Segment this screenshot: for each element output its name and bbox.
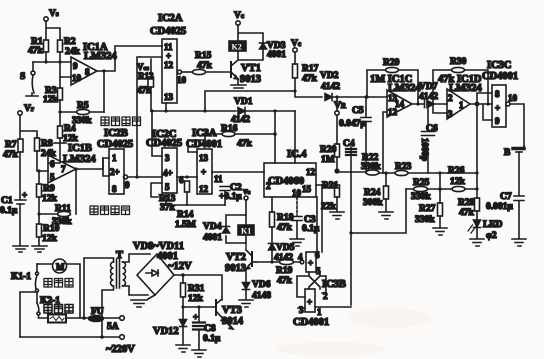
wire IC1D out up to IC3C pin8	[477, 93, 492, 104]
resistor R30 feedback	[433, 57, 488, 113]
svg-text:0.1μ: 0.1μ	[0, 206, 18, 216]
svg-text:12: 12	[388, 107, 398, 117]
svg-text:R21: R21	[322, 181, 339, 191]
wire R16 bus y134	[205, 133, 275, 135]
ground under VD6	[239, 300, 253, 307]
node VR terminal stub	[334, 97, 347, 115]
svg-text:15: 15	[302, 184, 312, 194]
wire x440 from bus y173 down through R27	[439, 173, 441, 203]
resistor R17	[293, 52, 319, 91]
node junction x137 on y177	[135, 175, 138, 178]
svg-text:47k: 47k	[3, 150, 19, 160]
svg-text:+: +	[307, 297, 312, 307]
switch K1-1	[35, 264, 38, 292]
svg-text:CD4060: CD4060	[268, 176, 304, 187]
ground under R27	[433, 228, 447, 235]
svg-text:4+: 4+	[163, 168, 173, 178]
wire IC2C pin5 left bracket	[151, 183, 162, 197]
ground under LED	[470, 239, 484, 246]
svg-text:IC2B: IC2B	[104, 128, 128, 139]
svg-text:R7: R7	[5, 140, 17, 150]
diode VD2	[320, 71, 340, 101]
svg-text:R24: R24	[364, 188, 381, 198]
capacitor C7	[486, 192, 524, 238]
bridge rectifier VD8-VD11	[133, 241, 192, 295]
node junction dots	[44, 60, 61, 63]
svg-text:VD2: VD2	[320, 71, 339, 81]
capacitor C8 electrolytic	[193, 307, 221, 349]
svg-text:S: S	[20, 72, 25, 82]
svg-text:12k: 12k	[450, 177, 466, 187]
diode VD7	[419, 82, 438, 108]
resistor R2	[58, 37, 81, 57]
wire feedback loop x351 y233 x406	[351, 189, 406, 233]
wire R9 column	[38, 171, 40, 245]
resistor R15	[193, 51, 213, 75]
motor M	[53, 259, 67, 273]
svg-text:~12V: ~12V	[168, 261, 192, 272]
svg-text:6: 6	[50, 159, 55, 169]
resistor R22	[361, 153, 381, 175]
svg-text:VT3: VT3	[222, 305, 242, 316]
ground under C7	[512, 239, 526, 246]
svg-text:R20: R20	[320, 145, 337, 155]
svg-text:R9: R9	[43, 184, 55, 194]
ground under VD12	[176, 345, 190, 352]
svg-text:IC2A: IC2A	[158, 13, 183, 24]
resistor R31	[181, 275, 205, 307]
resistor R29 feedback	[367, 58, 418, 104]
wire IC2A pin13 down to y111 bus	[165, 103, 167, 112]
svg-text:4148: 4148	[252, 291, 271, 301]
resistor R10	[37, 224, 60, 244]
svg-text:+0.1μ: +0.1μ	[219, 192, 242, 202]
svg-text:12k: 12k	[42, 194, 58, 204]
wire x275 down to IC4 top	[274, 111, 276, 163]
terminal circle AC bottom	[120, 335, 125, 340]
svg-text:R10: R10	[43, 224, 60, 234]
svg-text:9013: 9013	[225, 263, 246, 274]
wire IC3C output pin10	[506, 93, 524, 146]
wire IC3A pin11 output to IC4 left edge	[212, 171, 264, 173]
svg-text:LM324: LM324	[388, 83, 421, 94]
svg-text:IC3C: IC3C	[487, 60, 512, 71]
svg-text:K1-1: K1-1	[11, 272, 31, 282]
resistor R7	[3, 139, 23, 160]
wire gate1 output up	[316, 197, 318, 252]
resistor R1	[28, 37, 49, 56]
wire VT2 emitter to VD6	[245, 269, 247, 282]
svg-text:IC1B: IC1B	[68, 143, 92, 154]
resistor R11	[52, 204, 72, 227]
wire bus y173	[337, 172, 477, 173]
node junction R14 tap	[185, 175, 188, 178]
wire IC2A output pin10 to R15	[177, 70, 192, 85]
svg-text:φ2: φ2	[486, 231, 497, 241]
wire R7 to C1	[19, 152, 21, 199]
svg-text:CD4025: CD4025	[150, 26, 186, 37]
transistor Q VT2	[225, 243, 252, 274]
svg-text:47k: 47k	[137, 85, 151, 95]
wire K2 VD3 bottoms to VT1 collector	[238, 49, 263, 60]
svg-text:VR: VR	[334, 101, 347, 111]
wire IC2C pin5 stub	[166, 193, 187, 205]
svg-text:IC.4: IC.4	[287, 149, 307, 160]
wire x295 from y111 bus to IC4 top	[294, 111, 296, 163]
IC U IC2C CD4025	[146, 129, 182, 193]
svg-text:C4: C4	[343, 139, 355, 149]
heater element	[39, 315, 67, 323]
svg-text:8: 8	[85, 67, 90, 77]
svg-text:330k: 330k	[411, 192, 431, 202]
wire R16 left end to IC3A pin13 column	[188, 134, 205, 140]
svg-text:+: +	[495, 103, 500, 113]
capacitor C1	[0, 190, 27, 245]
svg-text:3: 3	[448, 109, 453, 119]
svg-text:LM324: LM324	[63, 154, 96, 165]
svg-text:R15: R15	[195, 51, 212, 61]
svg-text:K2: K2	[232, 43, 242, 52]
svg-text:+: +	[201, 167, 206, 177]
resistor R13 labels	[159, 194, 176, 213]
wire bridge output to VT3 collector	[174, 275, 222, 300]
wire R12 column	[150, 59, 152, 111]
wire motor loop	[37, 264, 80, 318]
wire R11 to R9 R10 junction	[39, 213, 58, 215]
IC U IC2B CD4025	[97, 128, 133, 194]
svg-text:8: 8	[495, 89, 500, 99]
transistor Q VT1	[231, 60, 261, 85]
resistor R9	[37, 184, 58, 204]
svg-text:C1: C1	[1, 196, 13, 206]
op-amp U IC1B	[48, 143, 96, 183]
op-amp U IC1A	[71, 42, 117, 85]
svg-text:2: 2	[323, 291, 328, 301]
svg-text:300k: 300k	[363, 198, 383, 208]
svg-text:M: M	[56, 262, 65, 272]
terminal circle AC top	[120, 316, 125, 321]
svg-text:47k: 47k	[277, 276, 293, 286]
svg-text:1: 1	[459, 100, 464, 110]
svg-text:9013: 9013	[240, 74, 261, 85]
svg-text:4001: 4001	[203, 233, 222, 243]
resistor R28	[458, 198, 480, 219]
svg-text:+: +	[193, 312, 198, 322]
node Vc terminal above K2	[234, 11, 244, 25]
diode VD1	[231, 97, 253, 125]
svg-text:Vr: Vr	[24, 104, 34, 114]
svg-text:9014: 9014	[222, 316, 244, 327]
svg-text:24k: 24k	[65, 47, 81, 57]
IC U IC3C CD4001	[482, 60, 518, 127]
svg-text:VT1: VT1	[241, 63, 261, 74]
svg-text:2+: 2+	[110, 167, 120, 177]
svg-text:R14: R14	[177, 210, 194, 220]
diode VD5	[269, 243, 295, 263]
svg-text:10: 10	[508, 93, 518, 103]
svg-text:22k: 22k	[321, 202, 337, 212]
capacitor C5	[339, 97, 371, 173]
svg-text:47k: 47k	[459, 208, 475, 218]
wire R8 to IC1B pin5	[37, 151, 48, 171]
svg-text:R26: R26	[448, 166, 465, 176]
diode VD6	[243, 280, 272, 301]
svg-text:R28: R28	[458, 198, 475, 208]
capacitor C3	[292, 197, 320, 238]
LED	[468, 220, 503, 241]
svg-text:1: 1	[317, 307, 322, 317]
wire R5 horizontal	[60, 111, 104, 113]
wire junction bar below R4	[54, 142, 66, 144]
ground VT1 emitter	[231, 79, 246, 88]
resistor R20	[320, 115, 340, 170]
svg-text:11: 11	[214, 174, 223, 184]
svg-text:9: 9	[125, 180, 130, 190]
svg-text:R31: R31	[188, 284, 205, 294]
relay coil K2	[229, 41, 246, 52]
wire VD2 to IC1C pin13	[332, 96, 387, 98]
wire IC1A output to IC2A pin11	[97, 46, 162, 71]
svg-text:12: 12	[164, 60, 174, 70]
svg-text:R29: R29	[383, 58, 400, 68]
svg-text:R8: R8	[41, 139, 53, 149]
IC U IC4 CD4060	[264, 149, 316, 198]
NOR gate IC3B-b	[299, 289, 328, 317]
svg-text:K1: K1	[241, 227, 251, 236]
svg-text:B: B	[504, 148, 511, 158]
wire IC1D output to IC3C	[470, 103, 492, 105]
wire into IC3A pin13 from above	[188, 140, 197, 152]
svg-text:1: 1	[112, 153, 117, 163]
svg-text:1M: 1M	[321, 155, 335, 165]
svg-text:+: +	[22, 190, 27, 200]
svg-text:9: 9	[73, 61, 78, 71]
wire IC2B output pin9	[124, 175, 163, 190]
label overflow switch (CJK imitation)	[101, 117, 141, 126]
svg-text:12: 12	[306, 167, 316, 177]
wire bus y111 with VD1	[151, 110, 295, 112]
node Vs terminal top-left	[44, 9, 59, 21]
relay coil K1	[238, 225, 254, 236]
diode VD12	[153, 307, 187, 344]
svg-text:4142: 4142	[321, 82, 340, 92]
faint scan smudges	[275, 308, 430, 356]
svg-text:R30: R30	[450, 57, 467, 67]
svg-text:0.001μ: 0.001μ	[486, 202, 513, 212]
label water level switch (CJK imitation)	[90, 206, 130, 215]
label motor (CJK imitation)	[44, 279, 73, 288]
transistor Q VT3	[216, 299, 244, 329]
wire Vr column down	[20, 115, 37, 139]
wire IC1C pin12 down to bus	[383, 112, 387, 173]
resistor R3	[43, 86, 63, 105]
node Vc2 terminal	[243, 186, 251, 215]
resistor R14	[175, 181, 196, 230]
wire IC2A pin12 input from Vcc R12 column	[140, 56, 162, 58]
svg-text:R17: R17	[302, 64, 319, 74]
IC U IC3A CD4001	[186, 128, 223, 194]
resistor R25	[411, 178, 431, 202]
op-amp U IC1C	[370, 74, 421, 117]
svg-text:C8: C8	[204, 324, 216, 334]
resistor R26	[448, 166, 466, 192]
resistor R21	[321, 181, 340, 212]
svg-text:5: 5	[165, 182, 170, 192]
ground bridge bottom	[131, 295, 155, 307]
wire IC4 pin15 to R21	[316, 184, 337, 186]
svg-text:VD6: VD6	[252, 280, 271, 290]
svg-text:12: 12	[199, 184, 209, 194]
node V+ terminal R17	[291, 39, 301, 52]
svg-text:LED: LED	[483, 220, 503, 230]
svg-text:VD4: VD4	[203, 222, 222, 232]
svg-text:VD7: VD7	[419, 82, 438, 92]
diode VD4	[203, 222, 230, 243]
wire to IC3C pin9	[483, 104, 492, 120]
svg-text:47k: 47k	[277, 223, 293, 233]
ground under R10	[32, 246, 47, 252]
svg-text:R18: R18	[277, 213, 294, 223]
svg-text:330k: 330k	[415, 215, 435, 225]
wire Vc down to K2 and VD3 branch	[238, 25, 263, 42]
resistor R4	[58, 124, 79, 144]
node junction blob R20 R21 bus	[334, 168, 339, 173]
svg-text:C5: C5	[352, 106, 364, 116]
IC U IC2A CD4025	[150, 13, 186, 103]
wire y91 bus from x205 to R17 column	[205, 91, 295, 111]
svg-text:2: 2	[448, 93, 453, 103]
wire IC1B output	[76, 158, 103, 169]
ground under C1	[13, 246, 28, 252]
svg-text:C7: C7	[500, 192, 512, 202]
svg-text:0.047μ: 0.047μ	[339, 119, 366, 129]
wire feedback to R11	[75, 169, 77, 214]
node Vr terminal	[18, 104, 34, 115]
svg-text:47k: 47k	[237, 139, 253, 149]
svg-text:47k: 47k	[28, 46, 44, 56]
wire Vs down and branch to R1 R2	[46, 21, 60, 40]
svg-text:13: 13	[199, 153, 209, 163]
svg-text:Vc: Vc	[234, 11, 244, 21]
ground under R21	[330, 212, 344, 219]
svg-text:CD4001: CD4001	[482, 71, 518, 82]
wire R31 bottom to VT3 base	[183, 306, 216, 308]
svg-text:LM324: LM324	[84, 51, 117, 62]
fuse FU	[89, 307, 119, 332]
svg-text:8: 8	[112, 184, 117, 194]
svg-text:VD1: VD1	[234, 97, 253, 107]
svg-text:CD4001: CD4001	[293, 317, 329, 328]
svg-text:7: 7	[61, 164, 66, 174]
label heater (CJK imitation)	[44, 305, 73, 314]
ground under C8	[192, 350, 206, 357]
resistor R8	[35, 138, 57, 159]
resistor R19	[256, 259, 300, 286]
wire pin10 input	[60, 62, 71, 77]
NOR gate IC3B-a	[298, 250, 321, 276]
wire FU line y318	[66, 317, 120, 319]
svg-text:~220V: ~220V	[106, 344, 135, 355]
resistor R16	[221, 124, 253, 149]
op-amp U IC1D	[438, 74, 482, 119]
svg-text:R4: R4	[64, 124, 76, 134]
resistor R12	[137, 71, 154, 95]
svg-text:5A: 5A	[107, 322, 119, 332]
svg-text:47k: 47k	[302, 74, 318, 84]
svg-text:R2: R2	[64, 37, 76, 47]
battery B	[504, 146, 524, 195]
wire IC1A output down to R5	[103, 71, 105, 112]
wire gate2 output to x351 loop	[315, 306, 351, 308]
svg-text:3: 3	[299, 305, 304, 315]
svg-text:13: 13	[164, 92, 174, 102]
resistor R23	[395, 162, 412, 176]
resistor R18	[270, 197, 294, 243]
wire R15 to VT1 base	[206, 71, 232, 73]
svg-text:9: 9	[495, 116, 500, 126]
svg-text:+: +	[308, 258, 313, 268]
wire R14 bottom to y205 wire	[187, 192, 225, 205]
resistor R24	[363, 173, 389, 211]
svg-text:4001: 4001	[267, 50, 286, 60]
wire into IC2C pin3 from x152 column	[151, 111, 162, 156]
wire IC1C output through VD7	[412, 103, 447, 105]
svg-text:R19: R19	[276, 266, 293, 276]
transformer T	[84, 250, 150, 337]
svg-text:VD5: VD5	[276, 243, 295, 253]
svg-text:12k: 12k	[42, 234, 58, 244]
svg-text:3: 3	[165, 153, 170, 163]
svg-text:5: 5	[50, 172, 55, 182]
svg-text:12k: 12k	[43, 95, 59, 105]
wire IC1B out to IC2B input bracket	[103, 158, 109, 176]
svg-text:Vs: Vs	[49, 9, 59, 19]
svg-text:IC3B: IC3B	[322, 279, 346, 290]
wire jog R17 bottom to VD2 wire	[295, 91, 322, 97]
wire lower AC y337	[20, 336, 120, 338]
wire VT2 base from R19 wire	[252, 261, 256, 263]
wire x137 from pin12 wire down to y177	[137, 57, 140, 177]
wire R25 R26 bus y189	[406, 188, 477, 190]
wire parallel vertical x322	[321, 185, 323, 252]
svg-text:10: 10	[72, 73, 82, 83]
svg-text:10: 10	[177, 75, 187, 85]
wire x477 column below junction	[476, 104, 478, 198]
switch K2-1	[37, 303, 40, 315]
wire R1 R2 bottoms to bus y62	[33, 52, 71, 62]
wire gate2 pin3 stub	[298, 307, 305, 309]
resistor R27	[415, 203, 443, 227]
wire IC2C output pin6	[177, 175, 197, 185]
svg-text:R27: R27	[419, 204, 436, 214]
svg-text:0.1μ: 0.1μ	[203, 334, 221, 344]
capacitor C4 electrolytic	[343, 139, 356, 305]
capacitor C2	[219, 183, 242, 205]
svg-text:4: 4	[298, 252, 303, 262]
resistor R5	[72, 101, 92, 126]
wire left rail to lower wire	[20, 292, 37, 337]
diode VD3	[260, 41, 287, 60]
ground under R24	[379, 212, 393, 219]
svg-text:1.5M: 1.5M	[175, 220, 196, 230]
ground under C3	[290, 239, 304, 246]
wire column x60 pin10 to R3 R4	[48, 77, 60, 163]
svg-text:VT2: VT2	[226, 252, 246, 263]
wire gate cross coupling	[297, 272, 326, 297]
capacitor C6	[420, 104, 438, 173]
relay coil K1 with diode VD4 loop	[226, 215, 246, 243]
svg-text:12k: 12k	[188, 294, 204, 304]
